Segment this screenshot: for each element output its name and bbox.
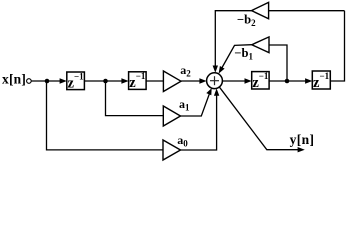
svg-text:x[n]: x[n] — [2, 72, 26, 87]
junction node J2 — [103, 79, 108, 84]
wire J1 down to gain a0 — [47, 81, 164, 150]
wire Z2 to gain a2 — [146, 80, 163, 82]
wire a0 up to summing node — [181, 95, 217, 150]
delay block Z2 — [129, 71, 147, 91]
wire a2 to summing node — [181, 80, 201, 82]
svg-text:−1: −1 — [320, 71, 330, 81]
summing node — [207, 73, 223, 89]
gain amplifier a2 — [163, 71, 181, 92]
junction node J1 — [45, 79, 50, 84]
wire b1 riser from J3 — [269, 45, 287, 81]
wire -b2 to drop — [215, 11, 251, 67]
delay block Z4 — [312, 71, 330, 91]
arrowhead into summing node (lower left diagonal) — [206, 88, 211, 95]
arrowhead into Z1 — [60, 78, 67, 83]
wire summing node to output y[n] — [219, 87, 298, 150]
arrowhead into summing node (top) — [213, 66, 218, 73]
arrowhead into Z4 — [305, 78, 312, 83]
wire J2 down to gain a1 — [106, 81, 164, 116]
delay block Z3 — [252, 71, 269, 91]
svg-text:−1: −1 — [136, 71, 146, 81]
wire input to delay Z1 — [32, 80, 62, 82]
wire Z4 to right riser — [330, 11, 344, 81]
gain amplifier -b2 (left pointing) — [252, 2, 269, 18]
svg-text:−1: −1 — [259, 71, 269, 81]
wire -b1 to summing node diagonal — [222, 45, 252, 68]
arrowhead into summing node (bottom) — [214, 89, 219, 96]
wire top feedback b2 (right segment) — [269, 10, 345, 12]
gain amplifier -b1 (left pointing) — [252, 37, 269, 53]
arrowhead into summing node (left) — [199, 78, 206, 83]
wire Z1 to delay Z2 — [84, 80, 122, 82]
svg-text:−1: −1 — [74, 71, 84, 81]
wire Z3 to delay Z4 — [269, 80, 306, 82]
arrowhead into Z3 — [245, 78, 252, 83]
wire summing node to delay Z3 — [222, 80, 245, 82]
input terminal (open circle) — [27, 79, 32, 84]
gain amplifier a1 — [163, 106, 180, 126]
arrowhead output — [298, 147, 305, 152]
wire a1 to summing node diagonal — [181, 94, 210, 117]
junction node J3 — [285, 79, 290, 84]
arrowhead into summing node (upper right diagonal) — [219, 66, 225, 74]
arrowhead into Z2 — [121, 78, 128, 83]
delay block Z1 — [67, 71, 85, 91]
svg-text:y[n]: y[n] — [290, 132, 315, 147]
gain amplifier a0 — [163, 140, 181, 160]
